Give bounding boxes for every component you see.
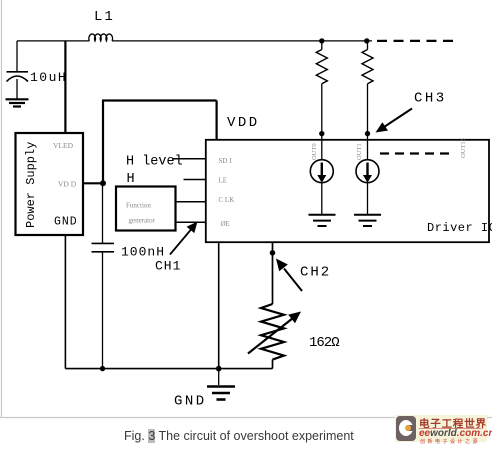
function generator box bbox=[116, 187, 176, 231]
wire dashed internal bus bbox=[380, 152, 451, 154]
svg-text:OUT1: OUT1 bbox=[356, 143, 363, 160]
arrow variable resistor bbox=[248, 312, 301, 354]
caption Fig.3 bbox=[124, 429, 354, 443]
svg-text:Function: Function bbox=[126, 202, 151, 210]
wire VDD drop into IC bbox=[216, 101, 218, 140]
wire OUT1 drain bbox=[272, 242, 274, 304]
arrow CH2 probe bbox=[276, 259, 302, 292]
resistor R-load 162ohm bbox=[261, 304, 284, 360]
ground (main) bbox=[207, 387, 235, 400]
ground (input) bbox=[6, 99, 29, 106]
wire top rail left bbox=[17, 40, 89, 42]
current source I-B bbox=[356, 160, 379, 183]
capacitor C-in plates bbox=[7, 72, 29, 82]
current source I-A bbox=[310, 160, 333, 183]
node CH2 junction bbox=[270, 250, 276, 256]
ground (channel A) bbox=[309, 215, 336, 226]
ground (channel B) bbox=[354, 215, 381, 226]
node rail junction B bbox=[364, 38, 369, 43]
svg-text:VLED: VLED bbox=[53, 141, 74, 150]
arrow CH3 probe bbox=[376, 109, 413, 133]
inductor L1 bbox=[89, 34, 113, 41]
wire bottom rail bbox=[65, 368, 272, 370]
svg-text:Driver IC: Driver IC bbox=[427, 221, 492, 235]
svg-text:100nH: 100nH bbox=[121, 245, 165, 260]
svg-text:ØE: ØE bbox=[221, 220, 230, 228]
wire VDD top run bbox=[102, 99, 217, 101]
svg-text:LE: LE bbox=[219, 177, 228, 185]
wire VLED drop bbox=[64, 41, 66, 133]
wire IC GND lead bbox=[218, 242, 220, 368]
wire R-A to IC bbox=[321, 84, 323, 160]
wire dashed rail continuation bbox=[377, 40, 458, 42]
svg-text:GND: GND bbox=[174, 394, 207, 410]
wire CLK bbox=[176, 201, 206, 203]
svg-text:CH1: CH1 bbox=[155, 259, 181, 274]
resistor R-A bbox=[316, 50, 327, 84]
wire OE bbox=[176, 221, 206, 223]
wire PS GND lead bbox=[64, 235, 66, 369]
logo eeworld bbox=[395, 415, 487, 442]
svg-text:Power Supply: Power Supply bbox=[24, 142, 38, 228]
node GND junction bbox=[216, 366, 222, 372]
wire I-B to ground bbox=[367, 183, 369, 214]
wire cap to ground bbox=[16, 79, 18, 99]
logo chinese title bbox=[419, 416, 487, 431]
driver IC U1 box bbox=[206, 140, 489, 242]
svg-text:OUT0: OUT0 bbox=[311, 143, 318, 160]
wire to decoupling cap bbox=[102, 183, 104, 243]
svg-text:VD D: VD D bbox=[58, 180, 77, 189]
logo slogan bbox=[420, 438, 480, 445]
wire GND stub bbox=[218, 369, 220, 385]
svg-text:L1: L1 bbox=[94, 9, 115, 25]
logo icon bbox=[396, 416, 416, 441]
svg-text:GND: GND bbox=[54, 216, 78, 229]
logo url bbox=[419, 428, 492, 439]
node cap-bottom junction bbox=[100, 366, 105, 371]
wire I-A to ground bbox=[321, 183, 323, 214]
node VDD junction bbox=[100, 180, 106, 186]
wire R-load to rail bbox=[272, 360, 274, 369]
wire SDI bbox=[172, 158, 206, 160]
wire rail to R-B bbox=[367, 41, 369, 50]
arrow CH1 probe bbox=[170, 222, 198, 255]
resistor R-B bbox=[362, 50, 373, 84]
wire R-B to IC bbox=[367, 84, 369, 160]
svg-text:H level: H level bbox=[126, 155, 183, 170]
svg-text:H: H bbox=[127, 172, 135, 187]
wire top rail right bbox=[112, 40, 372, 42]
power supply U-PS box bbox=[16, 133, 84, 235]
svg-text:CH3: CH3 bbox=[414, 91, 447, 107]
node rail junction A bbox=[319, 38, 324, 43]
wire LE bbox=[184, 179, 206, 181]
svg-text:162Ω: 162Ω bbox=[309, 335, 339, 351]
svg-text:VDD: VDD bbox=[227, 115, 260, 131]
svg-text:CH2: CH2 bbox=[300, 265, 331, 281]
wire VDD riser bbox=[102, 101, 104, 184]
capacitor C-in lead bbox=[16, 41, 18, 71]
svg-text:10uH: 10uH bbox=[30, 70, 67, 85]
wire VDD pin bbox=[83, 182, 103, 184]
node A pin junction bbox=[319, 131, 324, 136]
wire rail to R-A bbox=[321, 41, 323, 50]
capacitor 100nH plates bbox=[92, 243, 115, 251]
svg-text:OUT15: OUT15 bbox=[460, 138, 467, 158]
svg-text:generator: generator bbox=[129, 217, 156, 225]
wire cap to bottom rail bbox=[102, 252, 104, 369]
node B pin junction bbox=[365, 131, 370, 136]
svg-text:SD I: SD I bbox=[219, 157, 233, 165]
logo divider bbox=[419, 428, 481, 430]
svg-text:C LK: C LK bbox=[219, 196, 235, 204]
